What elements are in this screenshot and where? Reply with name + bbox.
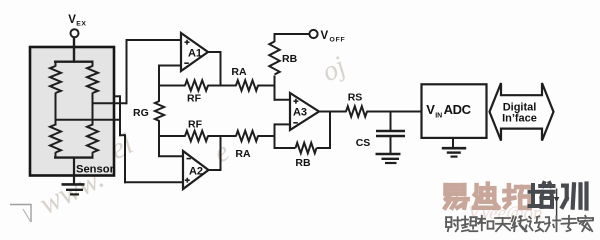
svg-text:V: V xyxy=(321,30,329,42)
svg-text:RB: RB xyxy=(282,53,298,65)
svg-text:RB: RB xyxy=(295,157,311,169)
svg-text:RF: RF xyxy=(187,93,202,105)
svg-text:EX: EX xyxy=(76,21,86,28)
svg-text:oj: oj xyxy=(317,51,351,89)
svg-text:A1: A1 xyxy=(188,48,202,60)
svg-text:e: e xyxy=(209,136,234,169)
svg-text:Sensor: Sensor xyxy=(76,164,115,176)
svg-text:A2: A2 xyxy=(189,166,203,178)
svg-text:ADC: ADC xyxy=(444,102,472,117)
svg-text:OFF: OFF xyxy=(330,37,346,44)
svg-text:In’face: In’face xyxy=(502,112,537,124)
svg-text:RA: RA xyxy=(231,66,247,78)
svg-text:RS: RS xyxy=(348,92,363,104)
svg-text:RA: RA xyxy=(235,148,251,160)
svg-text:V: V xyxy=(68,14,76,26)
svg-text:IN: IN xyxy=(435,113,442,120)
svg-text:V: V xyxy=(426,102,435,117)
svg-text:RF: RF xyxy=(188,119,203,131)
svg-text:CS: CS xyxy=(356,137,371,149)
svg-text:A3: A3 xyxy=(293,107,307,119)
svg-text:RG: RG xyxy=(133,107,149,119)
